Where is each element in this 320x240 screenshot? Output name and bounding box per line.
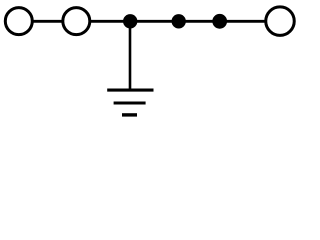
junction dot B bbox=[172, 14, 186, 28]
wire: vertical drop to ground bbox=[129, 21, 132, 90]
junction dot A bbox=[123, 14, 137, 28]
wire: main horizontal bus bbox=[19, 20, 280, 23]
terminal 2 (open circle) bbox=[63, 8, 90, 35]
terminal 1 (open circle, left) bbox=[5, 8, 32, 35]
ground (earth / PE symbol) bbox=[107, 90, 153, 115]
junction dot C bbox=[212, 14, 227, 29]
terminal 3 (open circle, right) bbox=[266, 7, 295, 35]
